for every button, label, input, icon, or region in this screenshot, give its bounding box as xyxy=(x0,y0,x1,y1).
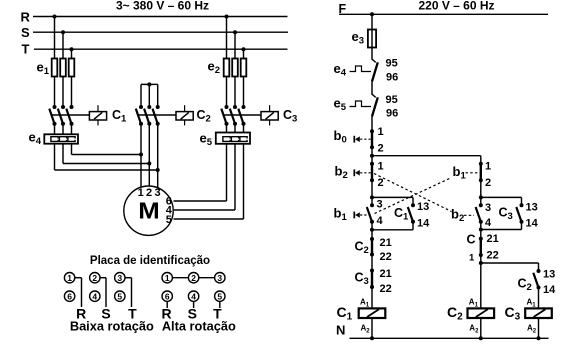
svg-text:S: S xyxy=(21,25,30,40)
svg-text:Baixa rotação: Baixa rotação xyxy=(70,319,154,334)
coil C3 xyxy=(505,298,552,335)
svg-text:2: 2 xyxy=(485,177,491,189)
wire to C2 NC xyxy=(370,222,374,239)
node F tap xyxy=(370,12,374,16)
node branch junction xyxy=(370,147,374,164)
wire e5 to b0 xyxy=(371,117,373,132)
fuse e1 (3x) xyxy=(37,59,75,78)
right column: wire down from branch xyxy=(480,156,482,164)
svg-text:C: C xyxy=(467,233,476,247)
wire fuses e2 to contactor C3 xyxy=(227,77,244,108)
svg-text:1: 1 xyxy=(469,253,475,264)
wires e4 to motor terminals (bends) xyxy=(55,144,158,170)
wire bus to fuses e1 xyxy=(55,17,72,59)
svg-text:22: 22 xyxy=(380,283,392,295)
wire F to fuse e3 xyxy=(371,14,373,29)
control supply F 220V 60Hz xyxy=(339,0,549,16)
interlock contact C3 21-22 xyxy=(355,268,392,295)
motor M (Dahlander) xyxy=(124,186,173,235)
plate high speed labels R S T xyxy=(162,306,223,322)
wire coil C2 to N xyxy=(480,318,482,338)
svg-text:22: 22 xyxy=(380,251,392,263)
svg-text:Placa de identificação: Placa de identificação xyxy=(90,255,210,267)
svg-text:1: 1 xyxy=(165,273,170,283)
svg-text:3: 3 xyxy=(377,198,383,210)
coil C2 xyxy=(447,298,494,335)
junction dots e4-C2 xyxy=(139,153,160,173)
svg-text:13: 13 xyxy=(543,268,555,280)
wire C3 to coil C1 xyxy=(371,287,373,308)
seal contact C1 13-14 xyxy=(372,197,430,229)
svg-text:3~ 380 V – 60 Hz: 3~ 380 V – 60 Hz xyxy=(116,0,209,13)
wire to C2 aux contact xyxy=(481,262,539,264)
svg-text:3: 3 xyxy=(117,273,122,283)
svg-text:3: 3 xyxy=(154,187,160,199)
contactor C2 operator (coil symbol) xyxy=(176,105,211,125)
node taps e2 branch xyxy=(225,15,246,52)
bus R xyxy=(21,9,288,24)
node to C2 coil / C2 seal xyxy=(479,255,483,308)
svg-text:1: 1 xyxy=(378,161,384,173)
plate low speed labels R S T xyxy=(76,306,137,322)
plate low speed terminals xyxy=(64,273,125,302)
svg-text:M: M xyxy=(138,198,160,224)
svg-text:N: N xyxy=(336,323,345,338)
svg-text:96: 96 xyxy=(386,108,398,120)
svg-text:R: R xyxy=(21,9,31,24)
svg-text:2: 2 xyxy=(378,142,384,154)
bus T xyxy=(22,42,288,57)
wire branch to right column xyxy=(372,155,481,157)
wire e3 to e4 contact xyxy=(371,48,373,60)
wire to C1 NC (right) xyxy=(479,222,483,239)
svg-text:95: 95 xyxy=(386,57,398,69)
contactor C2 main contacts xyxy=(136,105,176,126)
plate low speed wires to R S T xyxy=(75,278,132,307)
contactor C3 operator (coil symbol) xyxy=(261,105,297,125)
overload relay e4 xyxy=(29,130,79,148)
pushbutton b1 NC 1-2 (right) xyxy=(453,161,492,190)
node N junctions xyxy=(370,336,541,340)
svg-text:5: 5 xyxy=(166,214,172,226)
svg-text:14: 14 xyxy=(417,218,430,230)
node taps e1 branch xyxy=(53,15,74,52)
fuse e2 (3x) xyxy=(208,59,247,77)
svg-text:3: 3 xyxy=(485,202,491,214)
overload contact e5 95-96 xyxy=(334,94,399,119)
overload contact e4 95-96 xyxy=(334,57,399,83)
svg-text:96: 96 xyxy=(386,71,398,83)
contactor C1 operator (coil symbol) xyxy=(89,105,127,125)
svg-text:5: 5 xyxy=(217,291,222,301)
pushbutton b2 NO 3-4 (right) xyxy=(451,202,492,229)
wire coil C1 to N xyxy=(371,318,373,338)
svg-text:4: 4 xyxy=(377,215,384,227)
svg-text:4: 4 xyxy=(485,217,492,229)
svg-text:3: 3 xyxy=(217,273,222,283)
wire bus to fuses e2 xyxy=(227,17,244,59)
svg-text:1: 1 xyxy=(378,126,384,138)
aux contact C2 13-14 xyxy=(518,263,557,296)
svg-text:1: 1 xyxy=(67,273,72,283)
svg-text:1: 1 xyxy=(138,187,144,199)
svg-text:2: 2 xyxy=(146,187,152,199)
svg-text:5: 5 xyxy=(117,291,122,301)
wire e4 to e5 contact xyxy=(371,82,373,95)
motor terminal labels 1 2 3 xyxy=(138,187,161,199)
bus S xyxy=(21,25,288,40)
svg-text:21: 21 xyxy=(380,268,392,280)
svg-text:13: 13 xyxy=(417,201,429,213)
wire C2 aux to coil C3 xyxy=(538,288,540,309)
mech link b2 (dashed diagonal) xyxy=(374,174,452,212)
pushbutton b0 NC 1-2 xyxy=(334,126,384,154)
svg-text:14: 14 xyxy=(543,284,556,296)
bus N xyxy=(336,323,549,339)
svg-text:1: 1 xyxy=(485,161,491,173)
svg-text:21: 21 xyxy=(380,237,392,249)
svg-text:2: 2 xyxy=(378,177,384,189)
mech link b1 (dashed diagonal) xyxy=(375,178,452,214)
fuse e3 xyxy=(352,29,377,48)
seal contact C3 13-14 xyxy=(481,197,539,229)
wire C1 contacts to overload e4 xyxy=(55,124,72,135)
plate high speed wires to R S T xyxy=(167,301,220,308)
interlock contact C1 21-22 (right) xyxy=(467,233,499,264)
plate high speed bridge wires xyxy=(172,277,214,279)
motor terminal labels 6 4 5 xyxy=(166,196,173,226)
svg-text:14: 14 xyxy=(526,218,539,230)
svg-text:2: 2 xyxy=(92,273,97,283)
wire C3 contacts to overload e5 xyxy=(227,124,244,133)
svg-text:Alta rotação: Alta rotação xyxy=(162,319,236,334)
overload relay e5 xyxy=(200,131,251,149)
wire fuses e1 to contactor C1 xyxy=(55,77,72,108)
svg-text:4: 4 xyxy=(92,291,97,301)
svg-text:21: 21 xyxy=(487,233,499,245)
wires e5 to motor terminals 6 4 5 xyxy=(174,144,244,219)
svg-text:4: 4 xyxy=(191,291,196,301)
svg-text:95: 95 xyxy=(386,94,398,106)
wire coil C3 to N xyxy=(538,318,540,338)
wire b2 to b1 node xyxy=(370,180,374,205)
svg-text:2: 2 xyxy=(191,273,196,283)
svg-text:T: T xyxy=(22,42,30,57)
contactor C3 main contacts xyxy=(221,105,261,126)
svg-text:13: 13 xyxy=(526,202,538,214)
svg-text:22: 22 xyxy=(487,249,499,261)
coil C1 xyxy=(337,298,386,335)
wire C2 to C3 NC xyxy=(371,255,373,271)
wires C2 contacts down to motor 1 2 3 xyxy=(141,124,158,188)
svg-text:6: 6 xyxy=(67,291,72,301)
plate high speed terminals xyxy=(162,273,225,302)
contactor C2 star bridge xyxy=(141,82,158,107)
svg-text:220 V – 60 Hz: 220 V – 60 Hz xyxy=(418,0,494,13)
svg-text:6: 6 xyxy=(165,291,170,301)
wire b1 to b2 node (right) xyxy=(479,180,483,205)
contactor C1 main contacts xyxy=(49,105,89,126)
interlock contact C2 21-22 xyxy=(355,237,392,263)
pushbutton b2 NC 1-2 xyxy=(335,161,384,190)
pushbutton b1 NO 3-4 xyxy=(334,198,384,227)
